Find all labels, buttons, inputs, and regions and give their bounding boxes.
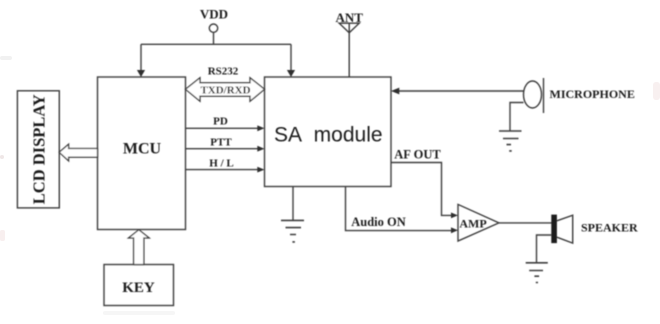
svg-text:MICROPHONE: MICROPHONE	[550, 87, 635, 101]
svg-text:PD: PD	[213, 116, 228, 128]
svg-text:PTT: PTT	[210, 137, 232, 149]
svg-text:KEY: KEY	[122, 280, 155, 296]
svg-text:TXD/RXD: TXD/RXD	[200, 85, 250, 97]
svg-text:H / L: H / L	[209, 158, 233, 170]
svg-text:Audio ON: Audio ON	[351, 215, 406, 229]
svg-text:LCD DISPLAY: LCD DISPLAY	[29, 94, 48, 204]
svg-text:AF OUT: AF OUT	[394, 148, 441, 162]
svg-text:SPEAKER: SPEAKER	[581, 221, 638, 235]
svg-text:VDD: VDD	[200, 7, 228, 22]
svg-text:MCU: MCU	[123, 141, 162, 158]
svg-text:SA module: SA module	[274, 124, 383, 147]
svg-text:RS232: RS232	[208, 66, 239, 78]
svg-text:ANT: ANT	[335, 10, 363, 25]
svg-text:AMP: AMP	[459, 217, 486, 231]
